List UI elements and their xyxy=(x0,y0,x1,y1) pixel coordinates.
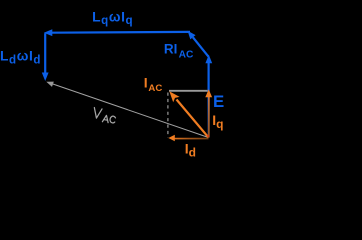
svg-text:E: E xyxy=(213,92,224,111)
